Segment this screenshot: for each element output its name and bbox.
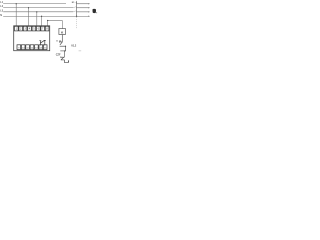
wire drop L2 to terminal 4	[28, 8, 30, 26]
wire drop L1 to terminal 1	[15, 4, 17, 26]
junction L1-drop	[16, 3, 17, 4]
contactor contact arms L2 L3	[73, 7, 76, 12]
junction N tap	[76, 16, 77, 17]
wire L2 bus left segment	[3, 7, 73, 9]
wire L3 bus right segment	[76, 11, 88, 13]
terminal 6	[37, 26, 41, 31]
svg-text:11 12: 11 12	[56, 41, 61, 43]
svg-text:N: N	[0, 14, 2, 17]
wire drop L3 to terminal 6	[36, 12, 38, 26]
svg-text:U1,2: U1,2	[71, 44, 77, 47]
terminal 12	[30, 45, 34, 50]
wire L1 bus left segment	[3, 3, 66, 5]
contact CZF (second contact)	[61, 57, 69, 63]
wire L1 bus right segment	[76, 3, 88, 5]
terminal 13	[35, 45, 39, 50]
cursor blob	[92, 9, 96, 13]
internal relay contact above bottom terminals	[39, 40, 45, 45]
wire relay output terminal 8 to coil K	[48, 21, 63, 29]
background	[0, 0, 100, 71]
junction output wire corner	[47, 20, 48, 21]
junction L3-drop	[36, 11, 37, 12]
relay box CZF outline	[14, 26, 50, 51]
arrowhead L3	[88, 11, 90, 13]
terminal 8	[45, 26, 49, 31]
terminal 7	[41, 26, 45, 31]
wire end node dot	[68, 60, 69, 61]
junction N-drop	[41, 16, 42, 17]
wire jog between contacts	[60, 51, 65, 57]
wire coil K to contact U1	[61, 35, 63, 42]
coil K box	[59, 29, 66, 35]
wire N bus	[3, 15, 88, 17]
cursor tail mark	[96, 11, 97, 14]
junction jog	[64, 50, 65, 51]
wire L3 bus left segment	[3, 11, 73, 13]
terminal 9	[17, 45, 21, 50]
terminal 5	[32, 26, 36, 31]
contact U1 (relay output contact)	[60, 41, 66, 51]
terminal 2	[19, 26, 23, 31]
wire L2 bus right segment	[76, 7, 88, 9]
terminal 15	[43, 45, 47, 50]
terminal 1	[15, 26, 19, 31]
arrowhead N	[88, 16, 90, 18]
wire drop N to terminal 7	[41, 16, 43, 26]
arrowhead L2	[88, 7, 90, 9]
terminal 10	[21, 45, 25, 50]
arrowhead L1	[88, 3, 90, 5]
terminal 14	[39, 45, 43, 50]
junction contact U1 output	[65, 46, 66, 47]
terminal row top (1-8)	[15, 26, 49, 31]
terminal row bottom (9-15)	[17, 45, 47, 50]
faint mark	[79, 50, 82, 51]
terminal 4	[28, 26, 32, 31]
terminal 11	[26, 45, 30, 50]
contactor linkage / N tap vertical	[76, 2, 78, 16]
contactor linkage dashed continuation	[76, 17, 78, 28]
terminal 3	[23, 26, 27, 31]
svg-text:CZF: CZF	[56, 53, 61, 56]
junction L2-drop	[28, 7, 29, 8]
